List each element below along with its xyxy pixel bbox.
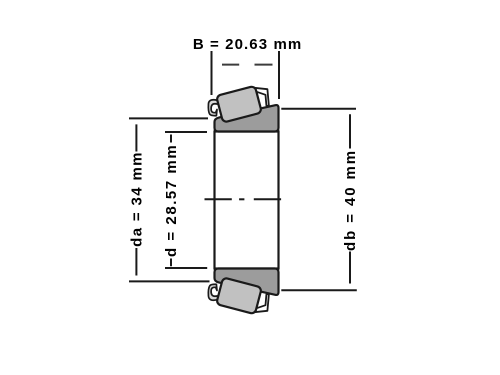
d dimension line	[170, 135, 172, 267]
cage hook left top	[208, 100, 218, 116]
cage strip right bottom	[254, 294, 269, 312]
db extension line bottom	[281, 289, 357, 291]
B extension line right	[278, 51, 280, 99]
d extension line bottom	[165, 267, 207, 269]
B dimension dashes	[222, 64, 273, 66]
cage strip right top	[254, 88, 269, 106]
db dimension line	[349, 114, 351, 283]
da extension line bottom	[129, 280, 210, 282]
da extension line top	[129, 117, 208, 119]
da dimension line	[135, 124, 137, 275]
svg-text:db = 40 mm: db = 40 mm	[342, 149, 359, 251]
d extension line top	[165, 131, 207, 133]
outer ring bottom (cup, mirrored)	[215, 269, 279, 295]
inner ring (cone)	[215, 132, 279, 269]
svg-text:B = 20.63 mm: B = 20.63 mm	[193, 36, 303, 53]
outer ring top (cup)	[215, 105, 279, 131]
cage hook left bottom	[208, 284, 218, 300]
roller bottom	[216, 277, 262, 314]
B extension line left	[211, 51, 213, 95]
svg-text:d = 28.57 mm: d = 28.57 mm	[163, 144, 180, 257]
roller top	[216, 86, 262, 123]
centerline (dash-dot axis)	[205, 198, 282, 200]
svg-text:da = 34 mm: da = 34 mm	[128, 151, 145, 247]
db extension line top	[281, 108, 356, 110]
